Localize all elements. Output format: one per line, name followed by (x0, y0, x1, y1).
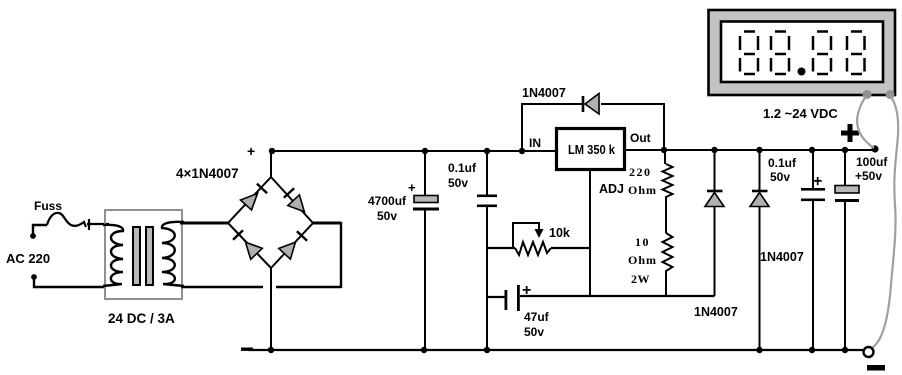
wire R3 bottom (665, 273, 667, 296)
wire secondary bottom run (181, 286, 341, 288)
svg-text:50v: 50v (377, 209, 397, 223)
svg-text:47uf: 47uf (524, 310, 550, 324)
bridge edge top-right (271, 177, 313, 223)
transformer T1 primary winding (103, 225, 123, 286)
capacitor C5 plus plate (835, 186, 859, 194)
wire between resistors (665, 199, 667, 233)
capacitor C2 bottom lead (486, 206, 488, 350)
svg-text:IN: IN (529, 136, 541, 150)
bridge diode D2 top-right (284, 188, 305, 212)
wire bridge minus drop (270, 268, 272, 350)
node C5 bottom (842, 347, 848, 353)
svg-text:+: + (813, 173, 822, 190)
display digit 1 (740, 32, 758, 75)
capacitor C5 minus plate (835, 199, 859, 202)
svg-text:220: 220 (629, 165, 652, 179)
resistor R3 10 Ohm body (663, 233, 673, 273)
bridge edge top-left (228, 177, 271, 223)
diode D6 1N4007 (705, 191, 724, 207)
capacitor C1 minus plate (413, 208, 439, 211)
node C2 bottom (484, 347, 490, 353)
capacitor C2 0.1uf top lead (486, 151, 488, 195)
transformer T1 case (105, 210, 182, 299)
svg-text:Out: Out (630, 131, 651, 145)
node D7 bottom (756, 347, 762, 353)
wire secondary top to bridge (180, 222, 228, 225)
svg-text:1N4007: 1N4007 (522, 86, 566, 100)
capacitor C1 bottom lead (424, 210, 426, 350)
svg-text:24 DC / 3A: 24 DC / 3A (108, 311, 175, 326)
potentiometer R1 10k body (515, 242, 551, 255)
bridge diode D1 top-left (241, 184, 268, 210)
svg-text:50v: 50v (524, 325, 544, 339)
wire pot left (487, 247, 515, 249)
label minus at bottom left (241, 348, 253, 351)
wire top rail (272, 150, 555, 152)
diode D7 1N4007 (750, 191, 769, 207)
wire adj bottom run (520, 295, 715, 297)
svg-text:Ohm: Ohm (628, 183, 657, 197)
svg-text:+50v: +50v (855, 169, 882, 183)
node C4 top (809, 147, 815, 153)
output terminal minus (864, 347, 874, 357)
potentiometer R1 wiper (513, 223, 539, 248)
svg-text:1N4007: 1N4007 (760, 250, 804, 264)
svg-text:10k: 10k (549, 226, 570, 240)
capacitor C1 4700uf top lead (424, 151, 426, 195)
capacitor C3 plate right (517, 285, 520, 311)
node C2 top (484, 148, 490, 154)
wire ADJ drop (589, 171, 591, 296)
display wire left (857, 96, 874, 148)
display decimal point (798, 68, 806, 76)
wire bridge right corner to vertical (313, 222, 341, 225)
node bridge plus (269, 148, 275, 154)
wire AC upper lead (33, 225, 47, 236)
node C5 top (842, 147, 848, 153)
node rail end (871, 145, 878, 152)
capacitor C5 bottom lead (844, 202, 846, 350)
diode D6 top lead (714, 150, 716, 191)
diode D7 top lead (759, 150, 761, 191)
panel meter display window (721, 22, 883, 83)
AC terminal upper (30, 233, 36, 239)
fuse F1 (47, 213, 86, 227)
display wire right (872, 95, 898, 348)
display digit 4 (847, 32, 865, 75)
capacitor C4 0.1uf top lead (812, 150, 814, 188)
capacitor C5 100uf top lead (844, 150, 846, 185)
bridge diode D3 bottom-left (233, 230, 262, 259)
potentiometer R1 wiper arrow (535, 229, 544, 238)
label output plus (841, 124, 859, 142)
display digit 3 (813, 32, 831, 75)
svg-text:50v: 50v (448, 176, 468, 190)
svg-text:2W: 2W (631, 272, 650, 286)
svg-text:1N4007: 1N4007 (694, 305, 738, 319)
svg-text:10: 10 (635, 235, 650, 249)
wire bottom rail (248, 349, 864, 351)
svg-text:+: + (247, 143, 255, 159)
bridge edge bottom-right (271, 223, 313, 268)
svg-text:0.1uf: 0.1uf (448, 161, 477, 175)
wire diode to out riser (601, 104, 664, 151)
node out (661, 147, 667, 153)
display lead solder left (863, 90, 872, 99)
wire pot right (551, 247, 590, 249)
svg-text:4700uf: 4700uf (368, 194, 407, 208)
svg-text:+: + (408, 180, 416, 195)
node C4 bottom (809, 347, 815, 353)
regulator U1 LM350 (557, 129, 625, 170)
node C1 top (422, 148, 428, 154)
node C1 bottom (421, 347, 427, 353)
fuse tick (87, 219, 109, 230)
capacitor C4 plates (801, 188, 825, 191)
svg-text:Ohm: Ohm (628, 253, 657, 267)
diode D6 bottom lead (714, 206, 716, 296)
capacitor C2 plates (477, 195, 497, 198)
node D6 top (711, 147, 717, 153)
node IN (519, 148, 525, 154)
wire IN riser to diode (522, 104, 583, 151)
capacitor C3 47uf plates (505, 290, 508, 310)
svg-text:Fuss: Fuss (34, 199, 62, 213)
node bridge minus (268, 347, 274, 353)
svg-text:AC 220: AC 220 (6, 251, 50, 266)
bridge edge bottom-left (228, 223, 271, 268)
capacitor C1 plus plate (414, 196, 438, 203)
node D7 top (756, 147, 762, 153)
svg-text:4×1N4007: 4×1N4007 (176, 166, 239, 181)
capacitor C4 plate lower (801, 199, 825, 202)
panel meter display body (709, 10, 896, 95)
svg-text:100uf: 100uf (856, 155, 888, 169)
wire vertical x341 (340, 222, 342, 288)
capacitor C4 bottom lead (812, 200, 814, 350)
wire out pin (626, 149, 875, 151)
label output minus (867, 365, 885, 371)
transformer T1 secondary winding (162, 222, 184, 286)
transformer T1 core bar left (133, 227, 140, 285)
svg-text:ADJ: ADJ (599, 182, 624, 196)
capacitor C2 plate lower (477, 205, 497, 208)
display digit 2 (771, 32, 789, 75)
svg-text:1.2 ~24 VDC: 1.2 ~24 VDC (763, 106, 838, 121)
diode D7 bottom lead (759, 206, 761, 350)
resistor R2 220 Ohm leads (664, 150, 666, 164)
svg-text:LM 350 k: LM 350 k (568, 142, 616, 157)
display lead solder right (886, 90, 895, 99)
wire AC lower lead (34, 277, 106, 287)
wire bridge plus riser (270, 151, 272, 177)
svg-text:0.1uf: 0.1uf (768, 156, 797, 170)
wire 47uf left (487, 296, 505, 298)
bridge diode D4 bottom-right (279, 231, 307, 259)
svg-text:50v: 50v (770, 170, 790, 184)
diode D5 1N4007 feedback (583, 94, 599, 115)
resistor R2 220 Ohm body (663, 164, 673, 199)
transformer T1 core bar right (146, 227, 153, 285)
AC terminal lower (31, 274, 37, 280)
